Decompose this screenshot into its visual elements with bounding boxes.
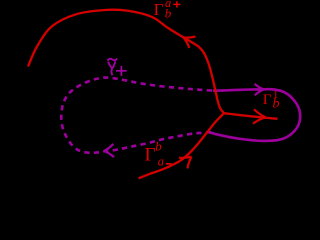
red contour lower arc Gamma_{a-}^b [139, 113, 225, 178]
arrow on dashed loop (left-pointing) [104, 144, 114, 157]
contour gamma-tilde-plus: solid right loop [209, 89, 300, 141]
arrow on solid loop (right-pointing) [255, 84, 264, 96]
svg-text:b: b [165, 6, 172, 21]
arrow on lower arc (up-right) [179, 157, 192, 169]
svg-text:b: b [155, 139, 162, 154]
label gamma-tilde-plus [107, 59, 117, 61]
arrow on big arc (up-left) [184, 37, 196, 49]
svg-text:Γ: Γ [263, 92, 272, 108]
red segment Gamma_b^1 [224, 113, 278, 119]
svg-text:a: a [158, 155, 164, 169]
red contour big arc Gamma_b^{a+} [28, 10, 224, 114]
svg-text:b: b [273, 97, 280, 112]
arrow on segment (right) [253, 109, 266, 123]
svg-text:Γ: Γ [145, 145, 156, 166]
contour gamma-tilde-plus: dashed left loop [61, 78, 216, 153]
svg-text:Γ: Γ [154, 0, 164, 19]
